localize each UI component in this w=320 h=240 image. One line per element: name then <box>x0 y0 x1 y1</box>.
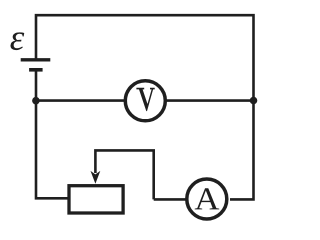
wire: middle horizontal, voltmeter to right junction <box>163 99 254 102</box>
wire: left side from battery negative down to rheostat left terminal <box>36 72 69 199</box>
rheostat R (variable resistor box) <box>69 186 123 213</box>
voltmeter V: circle <box>125 81 165 121</box>
voltmeter V: letter <box>136 88 154 111</box>
wire: ammeter left lead <box>154 198 190 201</box>
node: right junction dot <box>250 97 258 105</box>
wire: middle horizontal, left junction to voltmeter <box>36 99 128 102</box>
ammeter A: circle <box>187 179 227 219</box>
battery EMF source: long positive plate <box>21 58 51 61</box>
wire: rheostat slider branch to ammeter <box>95 150 153 199</box>
wire: top rail from battery positive, right side down to ammeter right lead <box>36 15 254 199</box>
label epsilon (EMF) <box>10 32 24 50</box>
ammeter A: letter <box>195 188 220 209</box>
battery EMF source: short negative plate <box>29 68 42 72</box>
node: left junction dot <box>32 97 40 105</box>
arrowhead of rheostat slider <box>91 171 101 184</box>
